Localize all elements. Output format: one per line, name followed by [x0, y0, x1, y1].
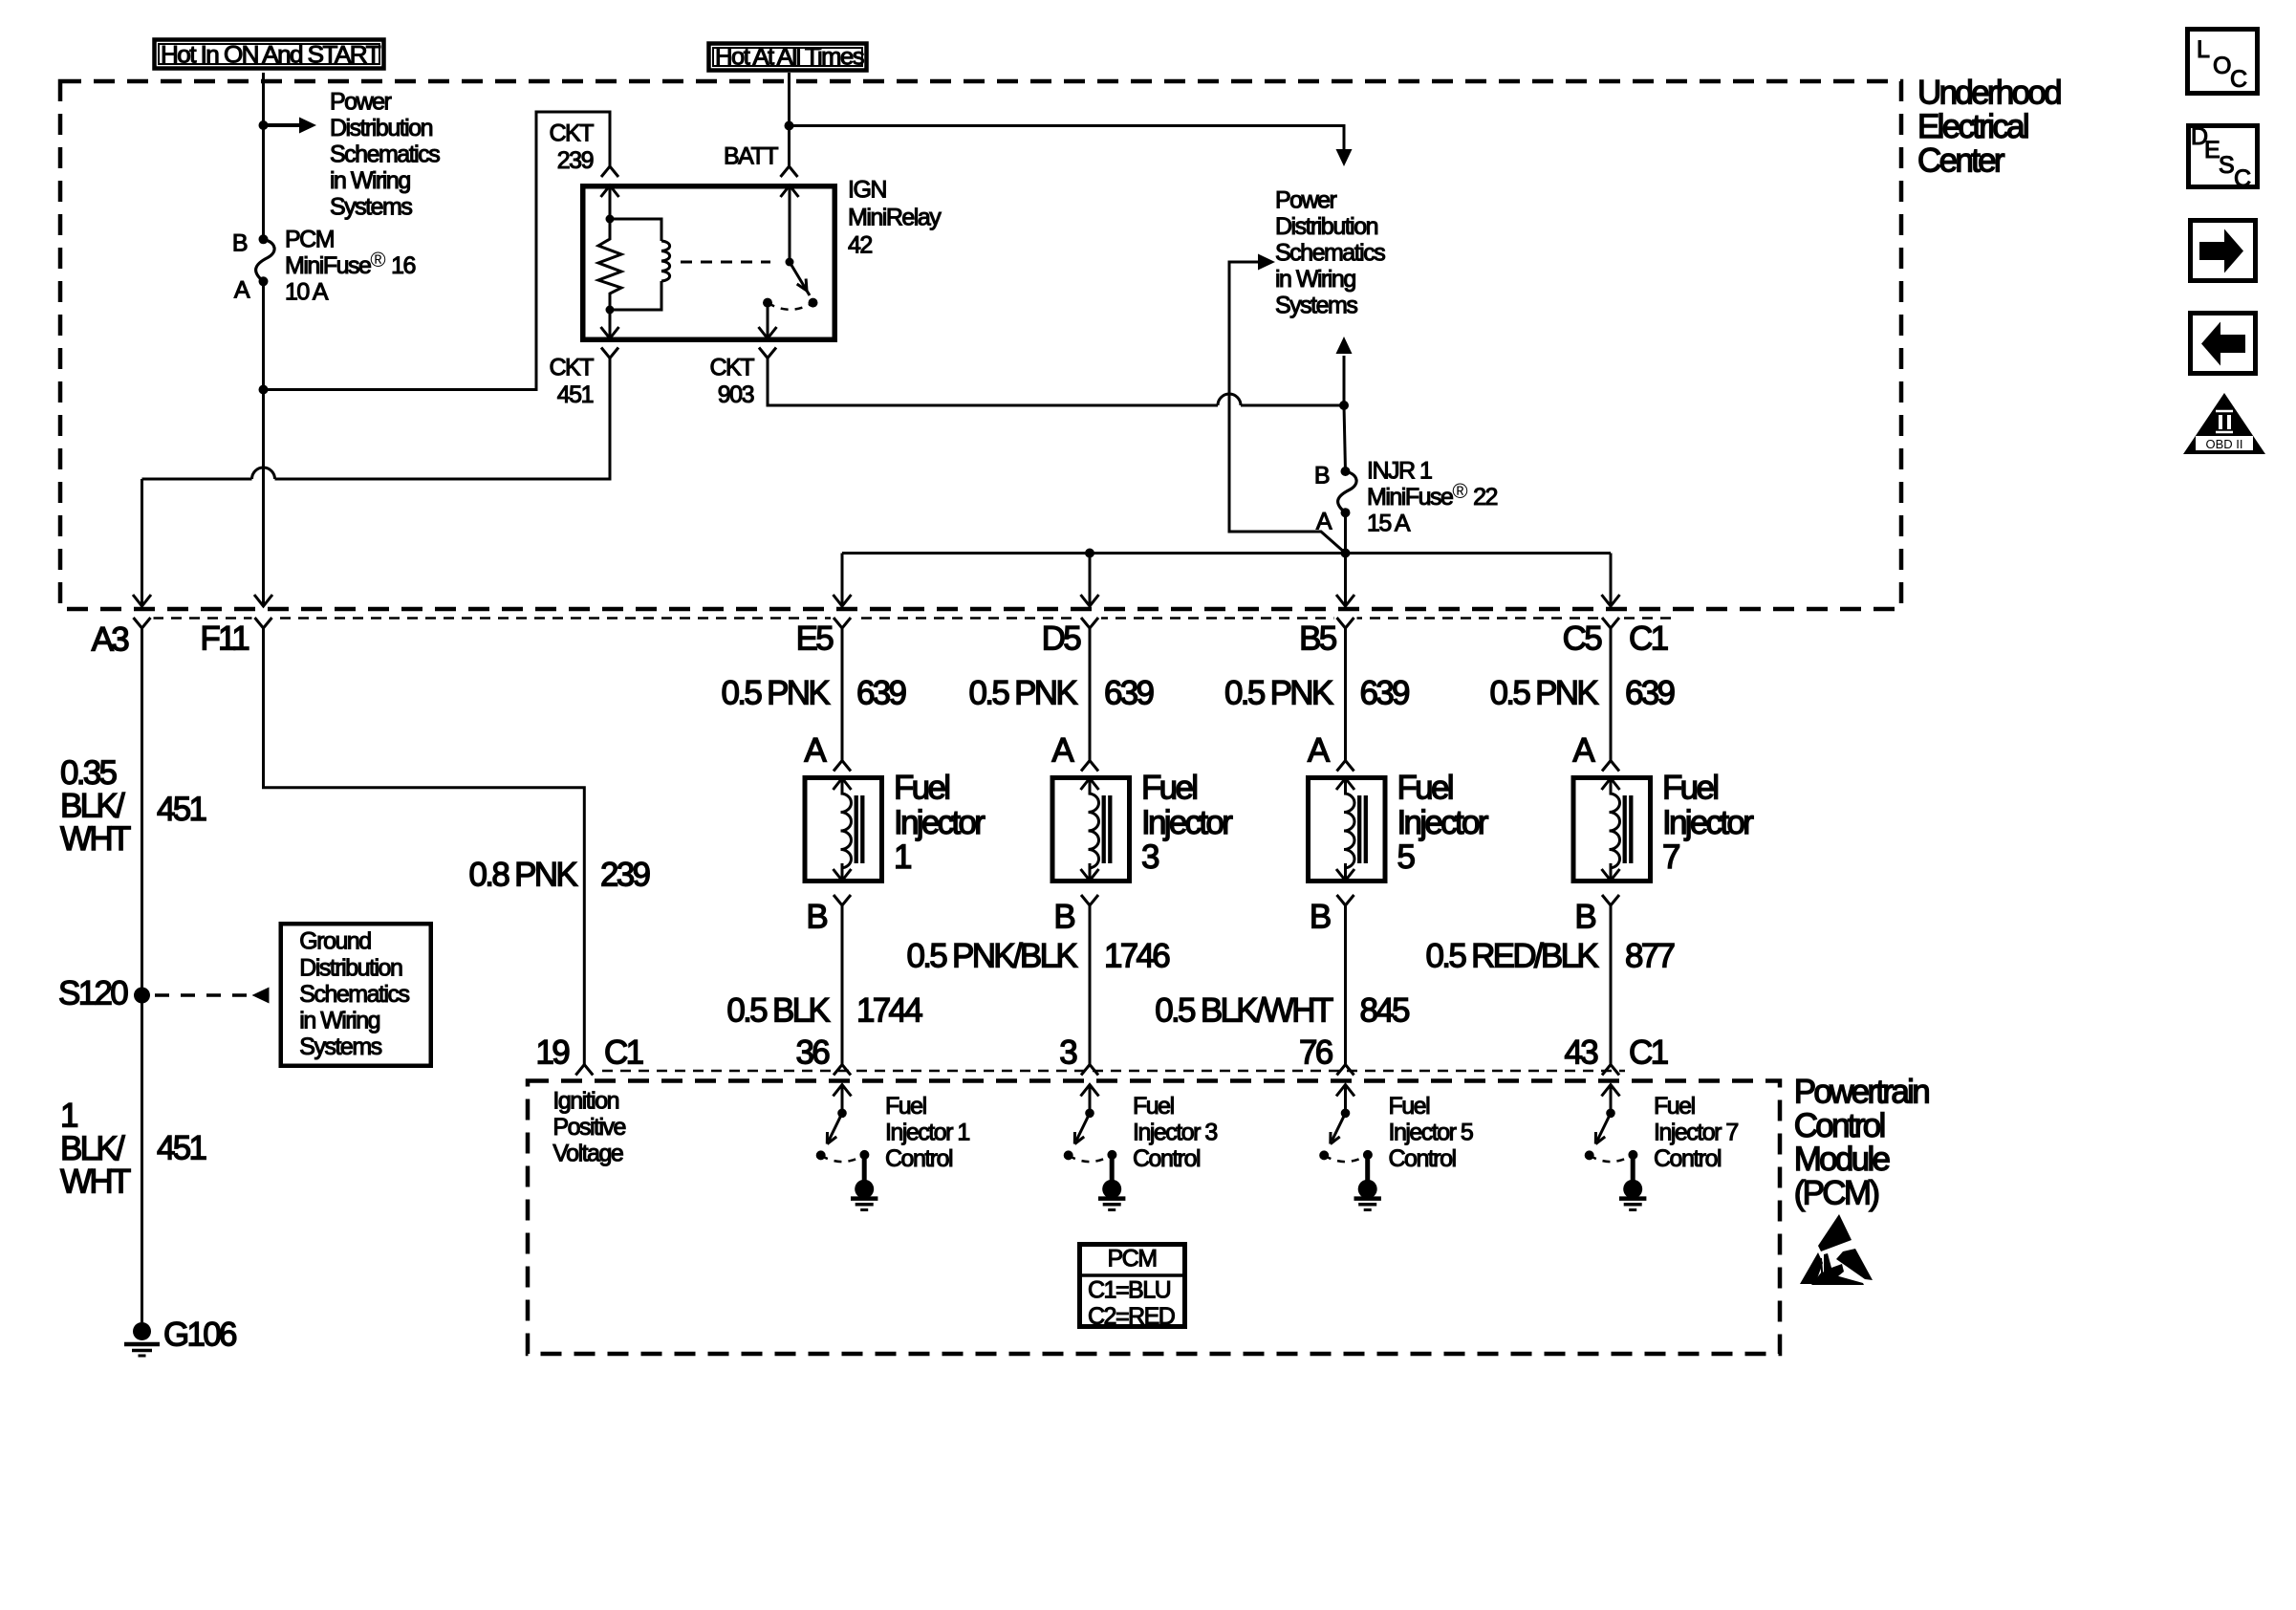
svg-text:E: E: [2204, 137, 2220, 163]
svg-text:Systems: Systems: [299, 1033, 381, 1060]
connector row: thin dashed line (PCM): [602, 1070, 1625, 1073]
text: C1 (connector id, bottom): [1629, 1034, 1668, 1072]
wire: CKT 903 from relay to fuse F22: [768, 359, 1344, 406]
PCM connector id box: C1=BLU C2=RED: [1077, 1245, 1187, 1331]
svg-text:1: 1: [60, 1098, 77, 1135]
svg-text:WHT: WHT: [60, 820, 131, 858]
connector: injector 5 pin B (female): [1337, 895, 1354, 905]
PCM driver switch: fuel injector 5 control: [1319, 1085, 1373, 1163]
svg-text:0.5 BLK: 0.5 BLK: [726, 992, 830, 1030]
svg-text:877: 877: [1625, 938, 1675, 975]
icon: forward arrow box: [2191, 221, 2256, 281]
svg-text:Injector: Injector: [1662, 804, 1754, 841]
svg-text:Underhood: Underhood: [1917, 75, 2061, 112]
connector: relay pin CKT 239 (female): [601, 166, 618, 177]
wire: fuse F16 output down to connector F11: [262, 281, 265, 605]
wire: injector 5 control to PCM pin 76: [1344, 905, 1347, 1065]
wire: battery feed from Hot At All Times to relay BATT: [788, 73, 791, 166]
text: C1 (connector id, pin 19): [604, 1034, 643, 1072]
svg-text:15 A: 15 A: [1367, 511, 1411, 537]
svg-text:Schematics: Schematics: [299, 981, 409, 1008]
svg-text:Fuel: Fuel: [1662, 770, 1718, 807]
power feed label box: Hot In ON And START: [155, 40, 384, 69]
splice S120: [58, 975, 150, 1012]
connector: injector 7 pin A (female): [1602, 761, 1619, 772]
svg-text:CKT: CKT: [550, 355, 595, 381]
text: Fuel Injector 7 Control: [1654, 1093, 1738, 1172]
label: circuit 451 (upper): [157, 791, 206, 828]
connector: PCM pin 3 (female): [1081, 1065, 1098, 1076]
wire: 451 BLK/WHT from S120 to G106: [141, 995, 143, 1322]
node: junction CKT 903 at fuse F22: [1339, 401, 1349, 410]
connector pin E5 (female): [831, 613, 854, 628]
svg-text:A: A: [234, 277, 250, 304]
fuel injector 3: [1052, 778, 1130, 881]
svg-text:WHT: WHT: [60, 1164, 131, 1201]
text: Power Distribution Schematics in Wiring Systems (right): [1275, 187, 1385, 319]
fuse F22: INJR 1 MiniFuse 22, 15 A: [1314, 405, 1356, 535]
wire: drop to connector A3: [133, 595, 151, 606]
svg-text:A: A: [1572, 732, 1595, 770]
wire: CKT 239 from fuse output to relay: [264, 112, 611, 390]
label: wire 1 BLK/WHT: [60, 1098, 131, 1201]
text: B5: [1299, 620, 1336, 658]
svg-text:Injector 1: Injector 1: [885, 1120, 969, 1146]
svg-text:0.5 PNK: 0.5 PNK: [1224, 675, 1333, 712]
svg-text:Fuel: Fuel: [1654, 1093, 1695, 1120]
connector: injector 7 pin B (female): [1602, 895, 1619, 905]
node: relay coil top junction: [606, 215, 615, 224]
reference box: Ground Distribution Schematics in Wiring Systems: [281, 924, 431, 1066]
wire: injector supply bus: [842, 552, 1611, 555]
wire: branch to Power Distribution Schematics arrow (mid): [1229, 254, 1346, 554]
svg-text:A: A: [1051, 732, 1074, 770]
svg-text:Injector 7: Injector 7: [1654, 1120, 1738, 1146]
svg-text:C: C: [2230, 66, 2247, 93]
svg-text:in Wiring: in Wiring: [299, 1008, 379, 1034]
text: Powertrain Control Module (PCM): [1794, 1074, 1930, 1212]
svg-text:O: O: [2213, 53, 2231, 79]
wire: fuse F22 output to injector supply bus: [1344, 512, 1347, 553]
svg-text:76: 76: [1299, 1034, 1332, 1072]
relay switch SW1: [763, 258, 818, 310]
svg-text:451: 451: [557, 381, 594, 408]
svg-text:Distribution: Distribution: [1275, 213, 1378, 240]
text: C5: [1563, 620, 1602, 658]
svg-text:3: 3: [1059, 1034, 1076, 1072]
text: Power Distribution Schematics in Wiring Systems (top left): [330, 89, 440, 221]
svg-text:S120: S120: [58, 975, 128, 1012]
svg-text:Positive: Positive: [552, 1114, 625, 1141]
symbol: ESD sensitive device: [1800, 1214, 1873, 1285]
svg-text:CKT: CKT: [710, 355, 755, 381]
connector: PCM pin 19 (female): [575, 1065, 593, 1076]
svg-text:239: 239: [557, 147, 594, 174]
svg-text:MiniRelay: MiniRelay: [848, 205, 942, 231]
svg-text:in Wiring: in Wiring: [1275, 266, 1355, 293]
svg-text:845: 845: [1360, 992, 1410, 1030]
svg-text:(PCM): (PCM): [1794, 1175, 1879, 1212]
svg-text:E5: E5: [796, 620, 834, 658]
icon: LOC box: [2188, 30, 2258, 94]
svg-text:B: B: [1310, 899, 1331, 936]
svg-text:Injector: Injector: [894, 804, 986, 841]
svg-text:G106: G106: [163, 1316, 236, 1354]
connector pin A3 (female): [131, 613, 154, 628]
svg-text:Injector 5: Injector 5: [1389, 1120, 1473, 1146]
wire: bus drop to connector D5: [1081, 554, 1099, 607]
text: A3: [92, 621, 129, 659]
wire: injector 1 control to PCM pin 36: [841, 905, 844, 1065]
svg-text:3: 3: [1141, 838, 1159, 876]
text: Fuel Injector 3: [1141, 770, 1233, 876]
label: wire 0.5 BLK/WHT 845 (injector 5): [1155, 992, 1409, 1030]
connector: relay pin CKT 903 (female): [759, 348, 776, 359]
pin label: A (injector 3): [1051, 732, 1074, 770]
wire: 239 PNK from F11 to PCM pin 19 (ignition positive voltage): [264, 628, 585, 1065]
svg-text:Control: Control: [1389, 1145, 1456, 1172]
PCM driver switch: fuel injector 3 control: [1064, 1085, 1117, 1163]
svg-text:A: A: [1308, 732, 1331, 770]
connector pin D5 (female): [1078, 613, 1101, 628]
ground: PCM internal (injector 3 driver): [1098, 1155, 1125, 1210]
node: junction of CKT 239 takeoff: [259, 385, 269, 395]
svg-text:MiniFuse® 22: MiniFuse® 22: [1367, 479, 1497, 511]
label: wire 0.5 PNK 639 (injector 3): [969, 675, 1154, 712]
icon: DESC box: [2189, 123, 2258, 192]
svg-text:Module: Module: [1794, 1141, 1890, 1178]
svg-text:C2=RED: C2=RED: [1088, 1303, 1175, 1330]
text: Fuel Injector 5 Control: [1389, 1093, 1473, 1172]
svg-text:639: 639: [1360, 675, 1410, 712]
svg-text:Power: Power: [1275, 187, 1337, 214]
svg-text:C1: C1: [1629, 620, 1668, 658]
svg-text:0.5 RED/BLK: 0.5 RED/BLK: [1426, 938, 1599, 975]
text: PCM MiniFuse 16 10 A: [285, 227, 415, 306]
wire: CKT 451 from relay to connector A3: [142, 359, 611, 606]
text: E5: [796, 620, 834, 658]
svg-text:Fuel: Fuel: [894, 770, 949, 807]
wire: 451 BLK/WHT from A3 to S120: [141, 628, 143, 995]
node: bus junction at D5: [1085, 549, 1094, 558]
fuel injector 5: [1309, 778, 1386, 881]
ground: PCM internal (injector 1 driver): [851, 1155, 877, 1210]
icon: OBD II triangle: [2183, 393, 2265, 454]
svg-text:239: 239: [600, 857, 650, 894]
svg-text:451: 451: [157, 791, 206, 828]
wire: bus drop to connector C5: [1602, 554, 1620, 607]
text: C1 (connector id, top): [1629, 620, 1668, 658]
svg-text:Power: Power: [330, 89, 392, 116]
fuel injector 7: [1573, 778, 1651, 881]
svg-text:Control: Control: [885, 1145, 952, 1172]
svg-text:Ignition: Ignition: [552, 1088, 618, 1115]
svg-text:MiniFuse® 16: MiniFuse® 16: [285, 248, 415, 279]
svg-text:Injector: Injector: [1141, 804, 1233, 841]
svg-text:Fuel: Fuel: [1141, 770, 1197, 807]
text: Fuel Injector 7: [1662, 770, 1754, 876]
svg-text:43: 43: [1564, 1034, 1597, 1072]
text: Fuel Injector 1 Control: [885, 1093, 969, 1172]
label: wire 0.5 PNK 639 (injector 5): [1224, 675, 1409, 712]
fuel injector 1: [805, 778, 882, 881]
svg-text:C5: C5: [1563, 620, 1602, 658]
connector: PCM pin 76 (female): [1337, 1065, 1354, 1076]
relay switch output arrow (pin CKT 903): [759, 303, 777, 338]
relay switch common arrow (pin BATT): [781, 185, 799, 262]
text: INJR 1 MiniFuse 22 15 A: [1367, 458, 1497, 537]
arrow: branch to Power Distribution Schematics (top left): [264, 118, 317, 134]
pin label: B (injector 5): [1310, 899, 1331, 936]
connector pin C5 (female): [1599, 613, 1622, 628]
svg-text:Fuel: Fuel: [885, 1093, 926, 1120]
label: wire 0.5 PNK 639 (injector 7): [1490, 675, 1675, 712]
svg-text:B: B: [232, 230, 248, 257]
connector pin B5 (female): [1334, 613, 1357, 628]
text: CKT 903: [710, 355, 755, 409]
label: circuit 451 (lower): [157, 1130, 206, 1167]
svg-text:42: 42: [848, 231, 872, 258]
svg-text:Fuel: Fuel: [1389, 1093, 1430, 1120]
svg-text:OBD II: OBD II: [2205, 437, 2242, 451]
svg-text:S: S: [2219, 152, 2234, 179]
pin label: 36 (PCM): [795, 1034, 829, 1072]
wire: 639 PNK feed to fuel injector 5: [1344, 628, 1347, 761]
svg-text:19: 19: [535, 1034, 569, 1072]
svg-text:INJR 1: INJR 1: [1367, 458, 1432, 485]
svg-text:Control: Control: [1133, 1145, 1200, 1172]
svg-text:0.35: 0.35: [60, 754, 117, 792]
svg-text:PCM: PCM: [285, 227, 334, 253]
connector: injector 3 pin A (female): [1081, 761, 1098, 772]
connector: PCM pin 43 (female): [1602, 1065, 1619, 1076]
svg-text:C: C: [2234, 165, 2251, 192]
svg-text:Distribution: Distribution: [330, 115, 433, 141]
connector pin F11 (female): [252, 613, 275, 628]
svg-text:7: 7: [1662, 838, 1679, 876]
svg-text:0.5 BLK/WHT: 0.5 BLK/WHT: [1155, 992, 1333, 1030]
svg-text:B5: B5: [1299, 620, 1336, 658]
svg-text:L: L: [2197, 36, 2210, 63]
svg-text:PCM: PCM: [1107, 1246, 1156, 1273]
svg-text:A: A: [804, 732, 827, 770]
relay dashed actuation link: [681, 261, 770, 264]
svg-text:Center: Center: [1917, 142, 2005, 180]
text: Fuel Injector 1: [894, 770, 986, 876]
relay resistor (parallel with coil): [598, 219, 621, 310]
pin label: B (injector 3): [1053, 899, 1074, 936]
wire: bus drop to connector E5: [834, 554, 852, 607]
svg-text:903: 903: [718, 381, 754, 408]
connector: injector 3 pin B (female): [1081, 895, 1098, 905]
svg-text:639: 639: [1104, 675, 1154, 712]
wire: 639 PNK feed to fuel injector 7: [1610, 628, 1613, 761]
pin label: B (injector 7): [1574, 899, 1595, 936]
svg-text:in Wiring: in Wiring: [330, 167, 410, 194]
svg-text:Injector: Injector: [1397, 804, 1489, 841]
wire: 639 PNK feed to fuel injector 3: [1089, 628, 1092, 761]
wire: ignition feed from Hot In ON And START to fuse F16: [262, 73, 265, 235]
svg-text:Systems: Systems: [330, 193, 412, 220]
svg-text:0.5 PNK: 0.5 PNK: [1490, 675, 1599, 712]
connector: injector 5 pin A (female): [1337, 761, 1354, 772]
label: wire 0.5 BLK 1744 (injector 1): [726, 992, 922, 1030]
pin label: A (injector 7): [1572, 732, 1595, 770]
svg-text:Powertrain: Powertrain: [1794, 1074, 1930, 1111]
svg-text:Electrical: Electrical: [1917, 108, 2028, 145]
svg-text:BATT: BATT: [724, 143, 778, 170]
svg-text:451: 451: [157, 1130, 206, 1167]
arrow: S120 to Ground Distribution Schematics: [155, 988, 270, 1004]
arrow: up to Power Distribution Schematics (right): [1336, 337, 1353, 405]
fuse F16: PCM MiniFuse 16, 10 A: [232, 230, 274, 304]
svg-text:Ground: Ground: [299, 928, 371, 955]
node: bus junction at B5: [1341, 549, 1351, 558]
ground G106: [124, 1316, 236, 1356]
text: CKT 451: [550, 355, 595, 409]
pin label: 43 (PCM): [1564, 1034, 1597, 1072]
relay coil output arrow (pin CKT 451): [601, 310, 619, 338]
connector: injector 1 pin B (female): [834, 895, 851, 905]
svg-text:BLK/: BLK/: [60, 1130, 125, 1167]
PCM driver switch: fuel injector 1 control: [816, 1085, 870, 1163]
text: D5: [1042, 620, 1081, 658]
svg-text:Injector 3: Injector 3: [1133, 1120, 1217, 1146]
text: Underhood Electrical Center: [1917, 75, 2061, 180]
component box: Powertrain Control Module (dashed): [528, 1081, 1780, 1355]
svg-text:36: 36: [795, 1034, 829, 1072]
svg-text:1: 1: [894, 838, 911, 876]
svg-text:Fuel: Fuel: [1397, 770, 1453, 807]
wire: 639 PNK feed to fuel injector 1: [841, 628, 844, 761]
pin label: B (injector 1): [806, 899, 827, 936]
svg-text:B: B: [1053, 899, 1074, 936]
svg-text:Hot In ON And START: Hot In ON And START: [161, 42, 380, 69]
node: battery feed branch junction: [785, 121, 794, 131]
svg-text:0.5 PNK: 0.5 PNK: [969, 675, 1078, 712]
svg-text:Schematics: Schematics: [1275, 240, 1385, 267]
text: IGN MiniRelay 42: [848, 177, 942, 259]
text: CKT 239: [550, 120, 595, 175]
pin label: 19 (PCM): [535, 1034, 569, 1072]
ground: PCM internal (injector 5 driver): [1354, 1155, 1381, 1210]
label: wire 0.8 PNK 239: [469, 857, 650, 894]
text: Ignition Positive Voltage: [552, 1088, 625, 1167]
text: F11: [200, 620, 249, 658]
svg-text:B: B: [806, 899, 827, 936]
connector: PCM pin 36 (female): [834, 1065, 851, 1076]
text: Fuel Injector 5: [1397, 770, 1489, 876]
label: wire 0.5 RED/BLK 877 (injector 7): [1426, 938, 1675, 975]
pin label: 76 (PCM): [1299, 1034, 1332, 1072]
svg-text:BLK/: BLK/: [60, 788, 125, 825]
svg-text:Distribution: Distribution: [299, 954, 402, 981]
svg-text:10 A: 10 A: [285, 279, 329, 306]
svg-text:1746: 1746: [1104, 938, 1169, 975]
svg-text:IGN: IGN: [848, 177, 886, 204]
node: relay coil bottom junction: [606, 306, 615, 315]
svg-text:Fuel: Fuel: [1133, 1093, 1174, 1120]
wire: injector 7 control to PCM pin 43: [1610, 905, 1613, 1065]
connector: relay pin CKT 451 (female): [601, 348, 618, 359]
svg-text:B: B: [1574, 899, 1595, 936]
label: wire 0.5 PNK/BLK 1746 (injector 3): [906, 938, 1169, 975]
PCM driver switch: fuel injector 7 control: [1585, 1085, 1638, 1163]
svg-text:Hot At All Times: Hot At All Times: [715, 44, 864, 71]
svg-text:C1: C1: [1629, 1034, 1668, 1072]
svg-text:0.5 PNK: 0.5 PNK: [722, 675, 831, 712]
svg-text:C1: C1: [604, 1034, 643, 1072]
svg-text:Control: Control: [1794, 1107, 1885, 1144]
connector: relay pin BATT (female): [781, 166, 798, 177]
svg-text:5: 5: [1397, 838, 1415, 876]
relay 42: IGN MiniRelay (box): [583, 186, 835, 340]
component box: Underhood Electrical Center (dashed): [60, 81, 1901, 609]
connector row: thin dashed line (Underhood to harness): [153, 617, 1678, 620]
svg-text:0.5 PNK/BLK: 0.5 PNK/BLK: [906, 938, 1077, 975]
svg-text:639: 639: [1625, 675, 1675, 712]
node: ignition feed branch junction: [259, 120, 269, 130]
power feed label box: Hot At All Times: [709, 44, 867, 71]
relay coil L1: [610, 219, 670, 310]
wire: injector 3 control to PCM pin 3: [1089, 905, 1092, 1065]
ground: PCM internal (injector 7 driver): [1619, 1155, 1646, 1210]
svg-text:Voltage: Voltage: [552, 1141, 623, 1167]
svg-text:A3: A3: [92, 621, 129, 659]
label: wire 0.5 PNK 639 (injector 1): [722, 675, 906, 712]
svg-text:CKT: CKT: [550, 120, 595, 147]
text: BATT: [724, 143, 778, 170]
svg-text:B: B: [1314, 463, 1330, 490]
relay coil input arrow (pin CKT 239): [601, 185, 619, 219]
svg-text:C1=BLU: C1=BLU: [1088, 1277, 1171, 1304]
svg-text:0.8 PNK: 0.8 PNK: [469, 857, 578, 894]
svg-text:Control: Control: [1654, 1145, 1721, 1172]
wire: bus drop to connector B5: [1336, 554, 1354, 607]
svg-text:1744: 1744: [856, 992, 922, 1030]
pin label: A (injector 1): [804, 732, 827, 770]
wire: battery branch to Power Distribution Schematics (right): [790, 126, 1353, 167]
pin label: A (injector 5): [1308, 732, 1331, 770]
icon: back arrow box: [2191, 314, 2256, 374]
svg-text:F11: F11: [200, 620, 249, 658]
text: Fuel Injector 3 Control: [1133, 1093, 1217, 1172]
svg-text:Systems: Systems: [1275, 292, 1357, 318]
label: wire 0.35 BLK/WHT: [60, 754, 131, 858]
connector: injector 1 pin A (female): [834, 761, 851, 772]
svg-text:639: 639: [856, 675, 906, 712]
pin label: 3 (PCM): [1059, 1034, 1076, 1072]
svg-text:D5: D5: [1042, 620, 1081, 658]
svg-text:Schematics: Schematics: [330, 141, 440, 168]
wire: drop to connector F11: [254, 595, 272, 606]
